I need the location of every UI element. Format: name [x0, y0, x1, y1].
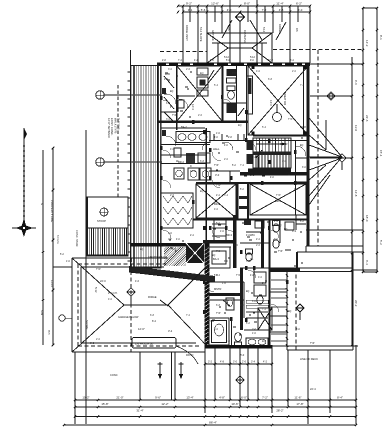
marker diamond e1 — [327, 92, 336, 101]
svg-text:GREAT RM: GREAT RM — [283, 92, 286, 105]
svg-text:7'-2: 7'-2 — [262, 8, 267, 12]
dashed east setback — [317, 50, 319, 246]
svg-text:4'-1: 4'-1 — [292, 229, 297, 233]
svg-text:10'-2: 10'-2 — [190, 169, 196, 173]
walk roof edge band — [129, 266, 215, 282]
svg-text:MSTR: MSTR — [214, 287, 221, 291]
svg-text:5:12: 5:12 — [250, 56, 255, 59]
svg-text:2'-6: 2'-6 — [186, 68, 191, 71]
leaders — [208, 70, 214, 80]
svg-text:6'-0": 6'-0" — [241, 396, 247, 400]
svg-text:TYP: TYP — [310, 343, 315, 345]
west rooms — [176, 66, 178, 130]
svg-text:15'-4: 15'-4 — [379, 150, 383, 157]
svg-text:6'-8: 6'-8 — [268, 78, 273, 81]
door jambs — [176, 95, 179, 99]
svg-text:BR-4: BR-4 — [275, 199, 281, 203]
svg-text:PROPERTY LINE: PROPERTY LINE — [50, 200, 54, 222]
svg-text:TYP: TYP — [214, 165, 219, 167]
svg-text:TYP: TYP — [172, 115, 177, 117]
terrace top lines — [240, 267, 353, 269]
svg-text:3'-0: 3'-0 — [168, 68, 173, 71]
svg-text:2'-0: 2'-0 — [224, 158, 229, 161]
svg-text:BR-2: BR-2 — [214, 202, 220, 206]
svg-text:5'-4: 5'-4 — [214, 84, 219, 87]
svg-text:4'-0: 4'-0 — [227, 8, 232, 12]
hatched wall strip — [131, 66, 133, 269]
svg-text:4'-0: 4'-0 — [214, 208, 219, 211]
svg-text:3'-0: 3'-0 — [215, 173, 220, 177]
svg-text:8'-4": 8'-4" — [337, 396, 343, 400]
east bay roof lines — [309, 118, 342, 157]
svg-text:PATIO: PATIO — [186, 353, 193, 357]
svg-text:2'-6: 2'-6 — [170, 194, 175, 197]
right dimension lines — [362, 8, 364, 272]
interior stair — [253, 138, 291, 168]
laundry bath cluster — [176, 132, 210, 143]
svg-text:22'-0: 22'-0 — [100, 279, 106, 283]
door swings — [179, 99, 188, 108]
svg-text:TYP: TYP — [276, 194, 281, 197]
svg-text:5'-6: 5'-6 — [201, 8, 206, 12]
svg-text:5'-2: 5'-2 — [379, 240, 383, 245]
room A ceiling diagonals — [177, 66, 222, 121]
svg-text:9'-6": 9'-6" — [155, 396, 161, 400]
left long extension line — [85, 130, 87, 424]
svg-text:9'-6: 9'-6 — [354, 80, 358, 85]
svg-text:3'-0: 3'-0 — [282, 160, 287, 163]
svg-text:5:12 SLOPE: 5:12 SLOPE — [199, 27, 203, 42]
svg-text:D: D — [190, 165, 192, 168]
svg-text:LINE OF DECK: LINE OF DECK — [300, 357, 318, 361]
svg-text:12'-4: 12'-4 — [191, 104, 195, 110]
svg-text:21'-0": 21'-0" — [116, 396, 123, 400]
svg-text:3'-2: 3'-2 — [168, 329, 173, 333]
svg-text:TYP: TYP — [96, 268, 101, 271]
svg-text:8'-0: 8'-0 — [240, 353, 245, 357]
svg-text:17'-8": 17'-8" — [296, 402, 303, 406]
svg-text:EQ: EQ — [288, 311, 292, 313]
svg-text:2'-6: 2'-6 — [252, 328, 257, 331]
dark shaft — [186, 243, 204, 263]
top keynote diamond — [236, 13, 245, 22]
svg-text:CONC. STAIR: CONC. STAIR — [75, 230, 79, 247]
downspout markers — [159, 362, 161, 374]
svg-text:3'-0: 3'-0 — [234, 244, 239, 247]
bath fixtures column — [222, 66, 224, 121]
svg-text:4'-2: 4'-2 — [263, 361, 268, 364]
svg-text:5'-0" CLR: 5'-0" CLR — [117, 118, 121, 130]
svg-text:6'-8: 6'-8 — [150, 314, 155, 317]
svg-text:HALL: HALL — [213, 147, 220, 151]
svg-text:3'-0: 3'-0 — [214, 328, 219, 331]
svg-text:5'-4: 5'-4 — [150, 270, 155, 273]
svg-text:EQ: EQ — [140, 249, 144, 251]
svg-text:5'-4: 5'-4 — [224, 194, 229, 197]
svg-text:13'-4": 13'-4" — [186, 396, 193, 400]
svg-text:86'-4": 86'-4" — [209, 421, 217, 425]
roof eave lines — [78, 263, 168, 265]
svg-text:SLOPE: SLOPE — [85, 320, 89, 329]
svg-text:BR-3: BR-3 — [226, 233, 232, 237]
svg-text:7'-2": 7'-2" — [262, 396, 268, 400]
bottom dimension lines — [75, 399, 356, 401]
tick specks — [176, 75, 178, 77]
svg-text:2'-6: 2'-6 — [242, 361, 247, 364]
svg-text:7'-2: 7'-2 — [262, 308, 267, 311]
exterior stair — [87, 197, 128, 255]
svg-text:12'-2": 12'-2" — [161, 402, 168, 406]
property line left — [52, 148, 54, 345]
svg-text:8'-0": 8'-0" — [244, 2, 250, 6]
svg-text:19'-8: 19'-8 — [300, 125, 306, 129]
svg-text:7'-2: 7'-2 — [240, 164, 245, 167]
second property line — [42, 150, 44, 345]
stair east wall — [295, 140, 297, 215]
corridor wall h3 — [240, 172, 308, 175]
svg-text:5'-4: 5'-4 — [262, 126, 267, 129]
walk hatch patch — [164, 247, 186, 266]
svg-text:31'-4": 31'-4" — [136, 409, 143, 413]
roof center dashed — [130, 258, 132, 352]
svg-text:6'-2": 6'-2" — [296, 2, 302, 6]
svg-text:5:12: 5:12 — [224, 56, 229, 59]
svg-text:4'-0: 4'-0 — [170, 148, 175, 151]
svg-text:EQ: EQ — [212, 255, 216, 257]
interior wall h4 — [196, 182, 308, 184]
svg-text:TYP: TYP — [246, 261, 251, 263]
svg-text:BA-2: BA-2 — [181, 125, 187, 129]
svg-text:BR-2: BR-2 — [178, 160, 184, 164]
svg-text:3'-4: 3'-4 — [251, 361, 256, 364]
svg-text:3'-0: 3'-0 — [166, 118, 171, 121]
marker diamond roof — [127, 288, 135, 296]
svg-text:5:12: 5:12 — [94, 287, 98, 293]
corridor wall h2 — [209, 140, 308, 142]
svg-text:2'-0: 2'-0 — [292, 70, 297, 73]
svg-text:7'-2: 7'-2 — [300, 84, 305, 87]
north arrow — [23, 128, 25, 226]
svg-text:4'-8: 4'-8 — [220, 361, 225, 364]
roof ext line left — [53, 266, 72, 268]
lower rooms fixtures — [209, 318, 229, 345]
svg-text:5'-2: 5'-2 — [250, 173, 255, 177]
svg-text:12'-8: 12'-8 — [354, 190, 358, 197]
central corridor wall — [205, 128, 207, 243]
svg-text:20'-2: 20'-2 — [354, 300, 358, 307]
svg-text:10'-6": 10'-6" — [231, 402, 238, 406]
svg-text:N 89: N 89 — [40, 310, 43, 316]
top leader lines — [250, 20, 262, 40]
svg-text:6'-2: 6'-2 — [90, 342, 95, 345]
south exterior wall — [204, 345, 272, 348]
closet chevrons — [163, 196, 192, 203]
top extension ticks — [182, 6, 184, 63]
keynote diamond bottom — [236, 376, 244, 384]
svg-text:7'-2: 7'-2 — [216, 250, 221, 253]
marker diamond e2 — [338, 154, 347, 163]
svg-text:TYP: TYP — [278, 251, 283, 253]
interior wall h1 — [157, 121, 248, 123]
svg-text:S 0 12 E: S 0 12 E — [56, 235, 58, 244]
svg-text:TYP: TYP — [216, 313, 221, 315]
svg-text:9'-2": 9'-2" — [186, 2, 192, 6]
wall y243 — [131, 243, 196, 246]
svg-text:EQ: EQ — [238, 124, 242, 127]
top hip roof — [207, 33, 272, 64]
terrace east — [286, 270, 288, 350]
svg-text:7'-2: 7'-2 — [186, 314, 191, 317]
svg-text:8'-1: 8'-1 — [379, 35, 383, 40]
svg-text:2'-0: 2'-0 — [240, 304, 245, 307]
grid bubble 2 — [96, 158, 104, 166]
svg-text:STOOP: STOOP — [97, 219, 106, 223]
east exterior wall — [307, 64, 310, 246]
svg-text:5:12: 5:12 — [262, 27, 266, 33]
svg-text:TYP: TYP — [236, 274, 241, 277]
svg-text:12'-6": 12'-6" — [138, 327, 145, 331]
svg-text:28'-2": 28'-2" — [276, 409, 283, 413]
dashed roofline top right — [273, 49, 362, 51]
svg-text:11'-4": 11'-4" — [276, 2, 283, 6]
svg-text:EQ: EQ — [278, 224, 282, 227]
svg-text:EQ: EQ — [246, 291, 250, 293]
svg-text:3'-0: 3'-0 — [233, 361, 238, 364]
svg-text:6'-8: 6'-8 — [200, 160, 205, 163]
svg-text:4'-8: 4'-8 — [279, 8, 284, 12]
bottom extension lines — [74, 352, 76, 424]
svg-text:EQ: EQ — [284, 229, 288, 231]
marker diamond terrace — [296, 304, 304, 312]
hall line — [161, 127, 205, 129]
fascia label box — [132, 338, 176, 349]
svg-text:TYP: TYP — [232, 72, 237, 75]
svg-text:EQ: EQ — [200, 190, 204, 193]
svg-text:4'-8": 4'-8" — [219, 396, 225, 400]
svg-text:RIDGE VENT: RIDGE VENT — [185, 25, 189, 41]
svg-text:FLASHING: FLASHING — [243, 30, 247, 43]
svg-text:2'-0: 2'-0 — [96, 338, 101, 341]
mid partitions — [229, 171, 231, 183]
svg-text:22'-4: 22'-4 — [310, 387, 316, 391]
west interior wall — [157, 63, 159, 243]
svg-text:4'-0: 4'-0 — [256, 70, 261, 73]
top dimension lines — [178, 5, 310, 7]
vertical extension line A — [229, 0, 231, 63]
east notch — [306, 229, 345, 231]
grid bubble 1 — [96, 91, 104, 99]
east lower wall — [269, 220, 271, 348]
svg-text:BA-3: BA-3 — [213, 257, 219, 261]
svg-text:14'-2: 14'-2 — [365, 40, 369, 47]
central thick wall lower — [204, 243, 209, 347]
svg-text:WIC: WIC — [250, 233, 255, 237]
svg-text:12'-6": 12'-6" — [211, 2, 219, 6]
svg-text:2x6 FASCIA BD: 2x6 FASCIA BD — [135, 342, 153, 346]
svg-text:3'-2: 3'-2 — [208, 361, 213, 364]
svg-text:4'-6: 4'-6 — [135, 280, 140, 283]
svg-text:EQ: EQ — [200, 72, 204, 75]
svg-text:22'-6: 22'-6 — [365, 115, 369, 122]
svg-text:EQ: EQ — [262, 340, 266, 343]
room C ceiling diagonals — [196, 184, 236, 218]
svg-text:GUTTER: GUTTER — [211, 30, 215, 41]
svg-text:35.5: 35.5 — [47, 330, 49, 335]
svg-text:EQ: EQ — [170, 91, 174, 93]
svg-text:6'-4: 6'-4 — [365, 260, 369, 265]
roof outline — [72, 257, 168, 259]
svg-text:12'-2: 12'-2 — [268, 60, 274, 62]
svg-text:STAIR: STAIR — [280, 142, 288, 146]
svg-text:4'-0: 4'-0 — [258, 276, 263, 279]
mid-lower rooms — [203, 240, 233, 244]
svg-text:124.6': 124.6' — [50, 280, 54, 288]
right extension lines — [310, 63, 363, 65]
svg-text:11'-0: 11'-0 — [354, 125, 358, 132]
svg-text:14'-0: 14'-0 — [269, 100, 273, 106]
svg-text:15'-8": 15'-8" — [101, 402, 108, 406]
roof bubble left — [59, 315, 65, 321]
dashed roofline top left — [160, 51, 207, 53]
vertical extension line B — [256, 0, 258, 63]
svg-text:TYP: TYP — [288, 118, 293, 121]
svg-text:18'-0: 18'-0 — [365, 215, 369, 222]
dashed setback line left — [117, 85, 119, 197]
svg-text:4'-0: 4'-0 — [108, 298, 113, 301]
svg-text:EQ: EQ — [300, 145, 304, 147]
svg-text:RIDGE: RIDGE — [148, 295, 157, 299]
room B ceiling diagonals — [248, 66, 308, 135]
svg-text:2'-6: 2'-6 — [256, 244, 261, 247]
svg-text:2'-0 O.H.: 2'-0 O.H. — [108, 292, 118, 295]
svg-text:TYP: TYP — [216, 185, 221, 187]
svg-text:CL: CL — [250, 257, 254, 261]
svg-text:CONC: CONC — [110, 373, 118, 377]
bottom sub dimension — [205, 363, 272, 365]
svg-text:GARAGE BELOW: GARAGE BELOW — [118, 316, 139, 319]
north exterior wall — [157, 63, 310, 66]
interior wall h5 — [193, 219, 308, 221]
svg-text:8'-2: 8'-2 — [152, 320, 157, 323]
svg-text:2'-6: 2'-6 — [198, 114, 203, 117]
svg-text:DS: DS — [295, 28, 299, 32]
svg-text:11'-6": 11'-6" — [294, 396, 301, 400]
